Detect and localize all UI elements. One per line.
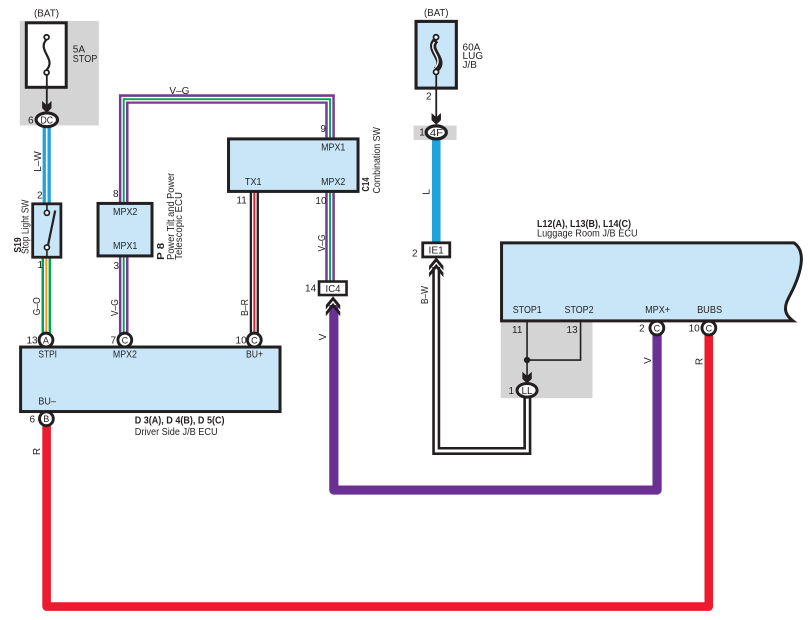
svg-text:J/B: J/B: [463, 60, 478, 71]
svg-text:R: R: [694, 358, 705, 365]
svg-text:STOP1: STOP1: [513, 305, 542, 316]
svg-text:13: 13: [27, 336, 39, 347]
svg-text:B–W: B–W: [420, 286, 431, 304]
svg-text:Driver Side J/B ECU: Driver Side J/B ECU: [135, 427, 218, 438]
svg-text:2: 2: [639, 324, 645, 335]
svg-text:1: 1: [419, 128, 425, 139]
svg-text:BUBS: BUBS: [697, 305, 722, 316]
svg-text:Luggage Room J/B ECU: Luggage Room J/B ECU: [537, 229, 638, 240]
svg-text:6: 6: [28, 116, 34, 127]
svg-text:3: 3: [114, 261, 120, 272]
svg-text:10: 10: [236, 336, 248, 347]
svg-text:L–W: L–W: [33, 151, 44, 172]
svg-text:MPX1: MPX1: [113, 241, 138, 252]
svg-text:R: R: [32, 448, 43, 455]
svg-text:Telescopic ECU: Telescopic ECU: [174, 192, 185, 260]
svg-text:14: 14: [305, 284, 317, 295]
svg-text:13: 13: [567, 325, 579, 336]
svg-text:V: V: [318, 333, 329, 340]
svg-text:LL: LL: [522, 386, 533, 397]
svg-text:7: 7: [111, 336, 117, 347]
svg-text:STOP2: STOP2: [565, 305, 594, 316]
svg-text:L: L: [421, 189, 432, 195]
svg-text:Combination SW: Combination SW: [372, 127, 383, 194]
svg-text:MPX2: MPX2: [113, 350, 137, 361]
svg-text:Stop Light SW: Stop Light SW: [21, 199, 32, 254]
svg-text:C: C: [122, 335, 129, 345]
svg-text:MPX2: MPX2: [321, 177, 346, 188]
svg-text:10: 10: [689, 324, 701, 335]
svg-text:DC: DC: [41, 115, 54, 126]
svg-text:V–G: V–G: [110, 299, 121, 316]
svg-text:STPI: STPI: [38, 350, 57, 361]
svg-text:IE1: IE1: [429, 246, 445, 257]
svg-text:8: 8: [113, 189, 119, 200]
svg-text:MPX2: MPX2: [113, 207, 138, 218]
svg-text:V–G: V–G: [169, 86, 189, 97]
svg-text:G–O: G–O: [32, 297, 43, 315]
svg-text:C: C: [654, 323, 661, 333]
svg-text:(BAT): (BAT): [34, 9, 59, 20]
svg-text:2: 2: [412, 249, 418, 260]
svg-text:C14: C14: [361, 177, 372, 192]
svg-text:6: 6: [30, 414, 36, 425]
svg-text:C: C: [706, 323, 713, 333]
svg-text:BU–: BU–: [38, 397, 56, 408]
svg-text:C: C: [251, 335, 258, 345]
svg-text:1: 1: [38, 260, 44, 271]
svg-text:11: 11: [512, 325, 523, 336]
svg-text:V–G: V–G: [317, 234, 328, 251]
svg-text:TX1: TX1: [245, 177, 262, 188]
svg-text:2: 2: [426, 92, 432, 103]
svg-text:4F: 4F: [430, 128, 443, 139]
svg-text:IC4: IC4: [326, 284, 341, 295]
svg-text:11: 11: [236, 196, 247, 207]
svg-text:MPX1: MPX1: [321, 143, 346, 154]
svg-text:2: 2: [37, 190, 43, 201]
svg-text:10: 10: [315, 196, 327, 207]
svg-text:BU+: BU+: [246, 350, 263, 361]
svg-text:D 3(A), D 4(B), D 5(C): D 3(A), D 4(B), D 5(C): [135, 416, 225, 427]
svg-text:1: 1: [509, 386, 515, 397]
svg-text:B: B: [43, 414, 49, 424]
svg-text:A: A: [43, 335, 49, 345]
svg-text:STOP: STOP: [73, 54, 98, 65]
svg-text:B–R: B–R: [240, 299, 251, 316]
svg-text:MPX+: MPX+: [645, 305, 670, 316]
svg-text:9: 9: [320, 124, 326, 135]
svg-text:V: V: [643, 357, 654, 364]
svg-text:(BAT): (BAT): [424, 8, 449, 19]
